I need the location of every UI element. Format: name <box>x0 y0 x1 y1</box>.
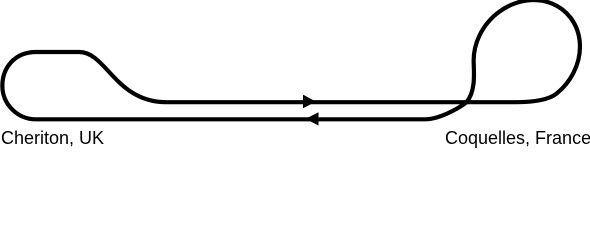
arrow left (lower line) <box>306 112 319 125</box>
label Cheriton <box>1 128 104 149</box>
arrow right (upper line) <box>303 95 316 109</box>
track loop path <box>2 0 580 119</box>
label Coquelles <box>445 128 590 149</box>
track diagram <box>0 0 590 151</box>
